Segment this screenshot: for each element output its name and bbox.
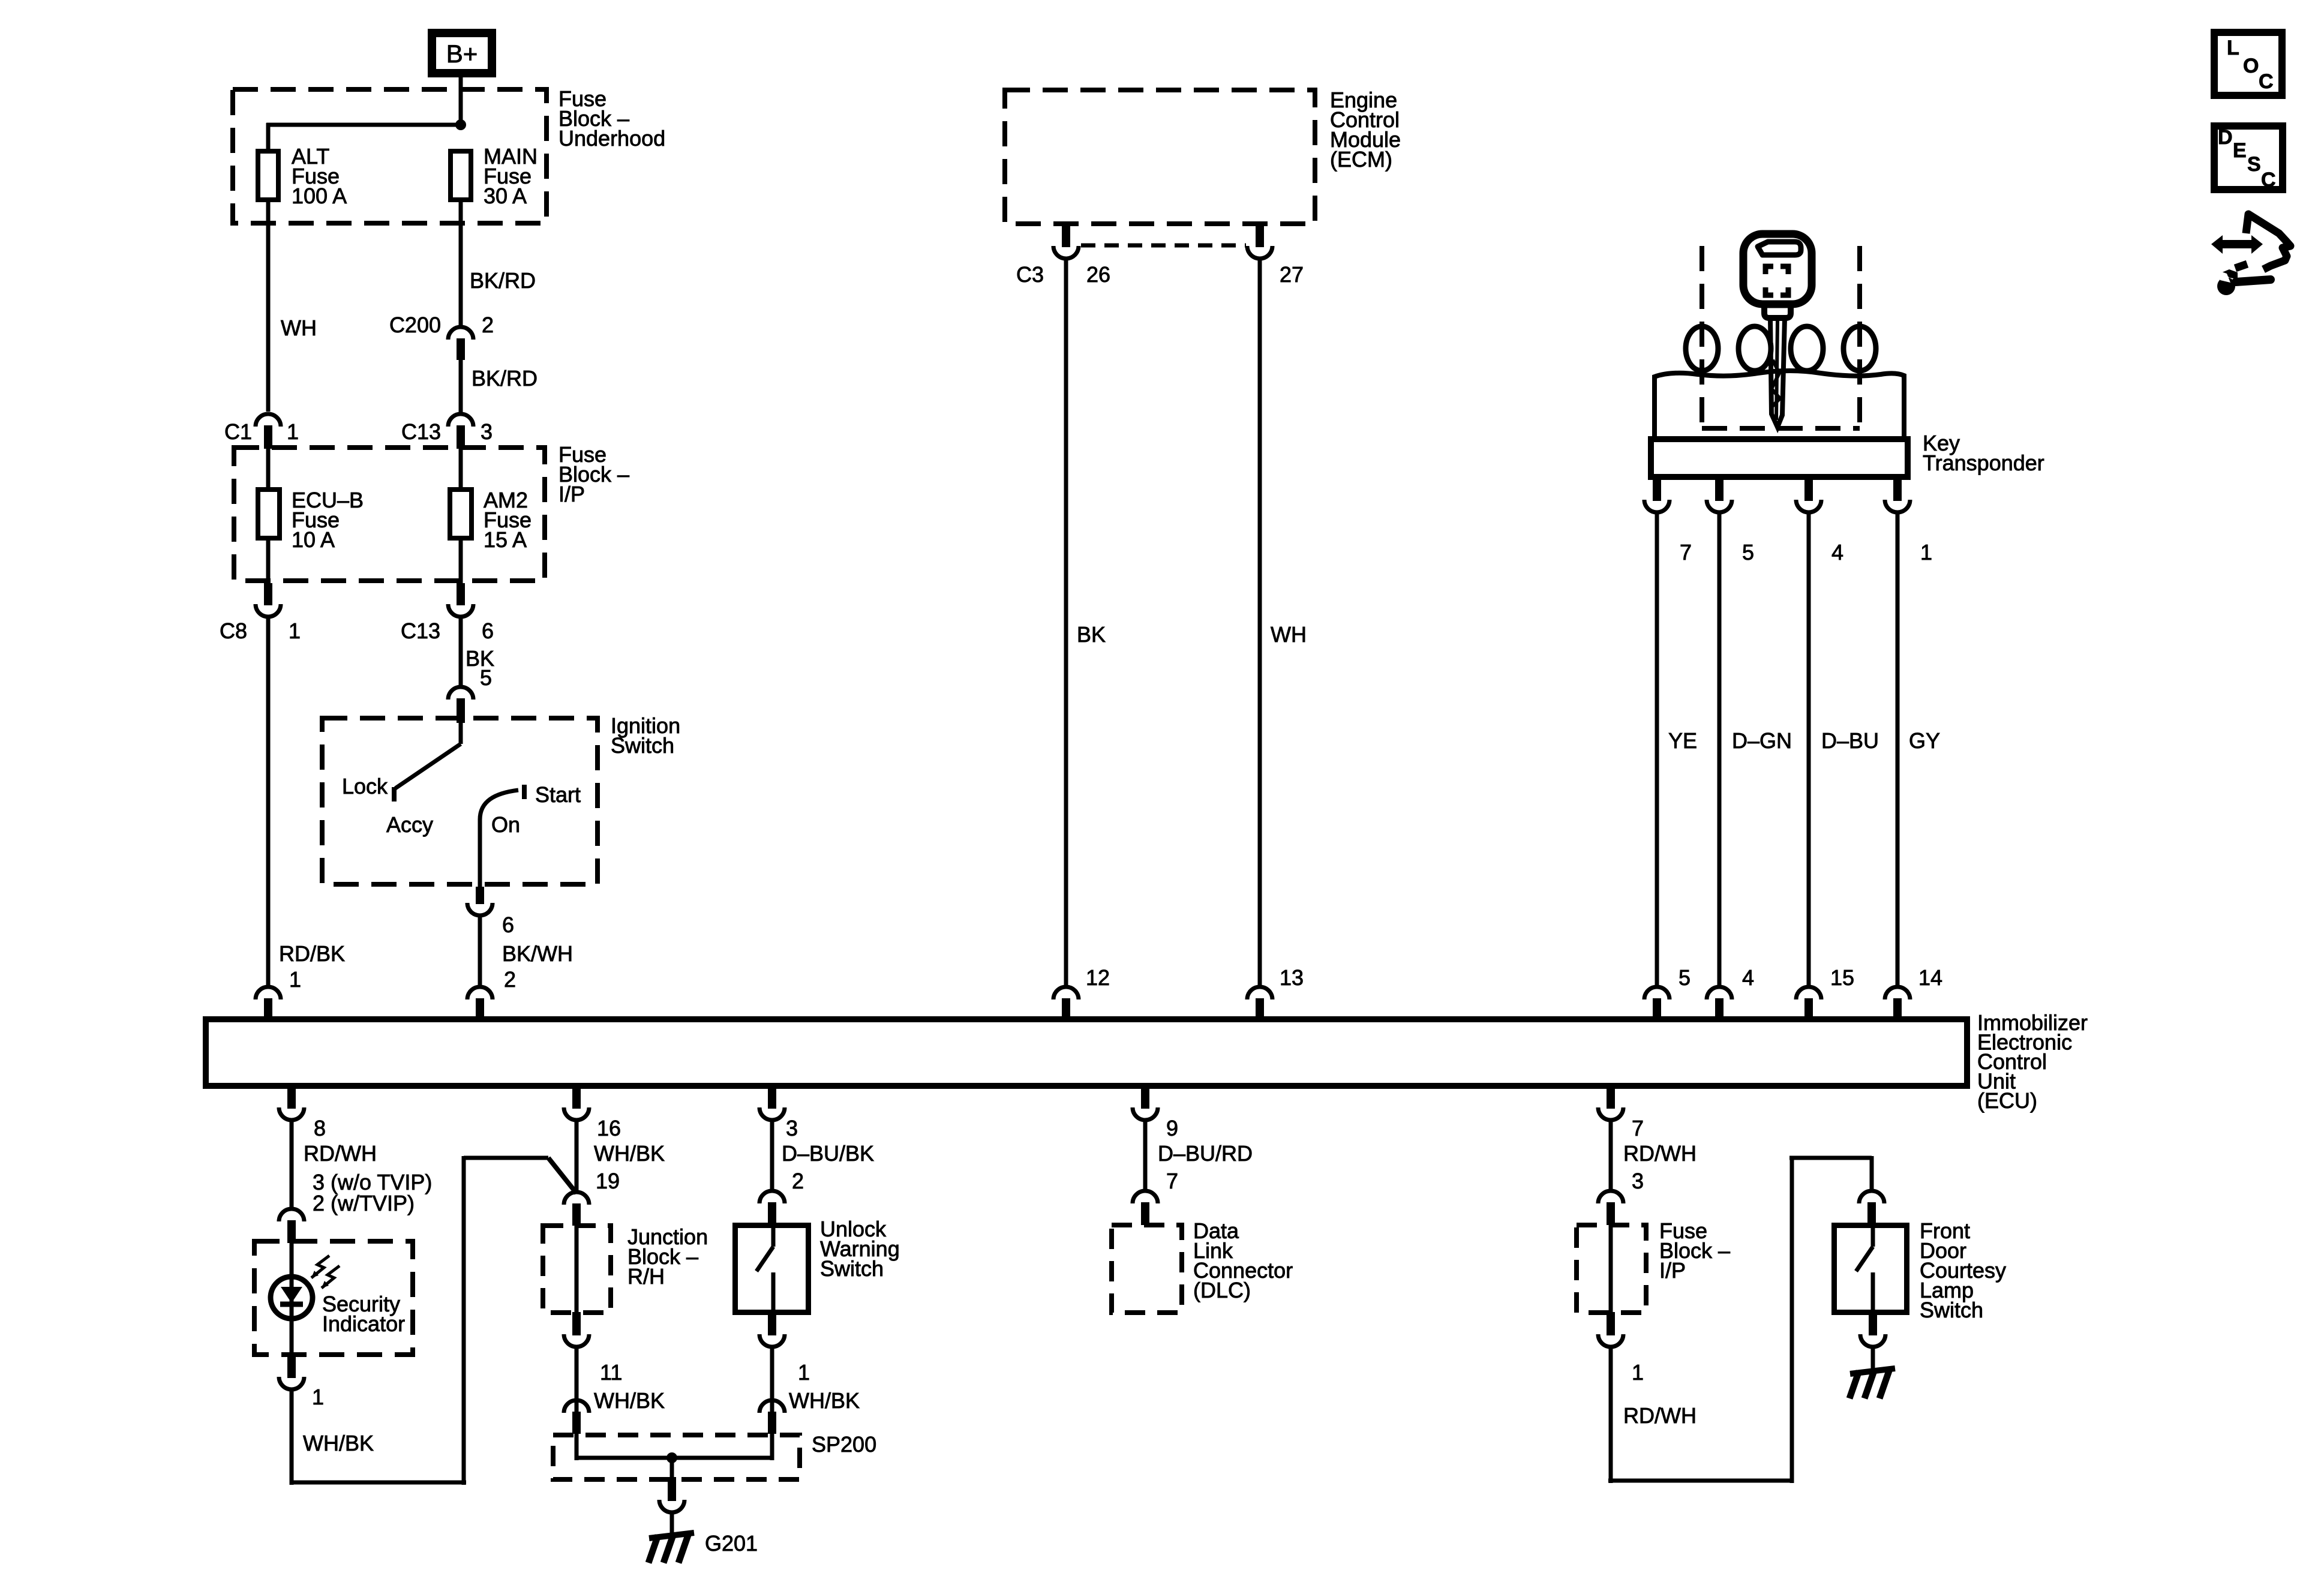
svg-text:GY: GY	[1909, 728, 1940, 753]
svg-text:1: 1	[289, 619, 301, 643]
wire BK ECM-26 to ECU pin 12	[1064, 259, 1068, 988]
svg-text:6: 6	[502, 912, 514, 937]
svg-text:19: 19	[596, 1169, 620, 1193]
wire WH ALT fuse to connector C1	[266, 202, 271, 412]
connector ECU top pin at x=2866	[1707, 987, 1732, 999]
wire D-BU/RD ECU pin 9 to DLC	[1143, 1120, 1148, 1192]
connector ECU top pin at x=3015	[1796, 987, 1821, 999]
connector ECU bottom pin at x=2685	[1607, 1086, 1615, 1109]
svg-text:26: 26	[1086, 262, 1110, 287]
connector C13 pin 6	[457, 583, 465, 605]
connector C200 pin 2	[448, 327, 473, 340]
wire inside fuse block I/P	[1609, 1225, 1613, 1312]
svg-text:14: 14	[1918, 965, 1942, 990]
svg-text:S: S	[2247, 153, 2261, 176]
node SP200 junction	[666, 1452, 677, 1463]
wire C13 to AM2 fuse	[459, 449, 463, 487]
svg-text:C: C	[2259, 70, 2274, 93]
courtesy lamp switch contacts	[1871, 1225, 1875, 1247]
wire SP200 left leg	[575, 1434, 579, 1460]
svg-text:12: 12	[1086, 965, 1110, 990]
connector SP200 right	[759, 1400, 785, 1413]
wire inside junction block	[575, 1226, 579, 1312]
coil ellipse 2	[1739, 326, 1771, 371]
LOC reference icon box	[2214, 32, 2282, 95]
connector ECU top pin at x=2762	[1644, 987, 1670, 999]
wire D-BU transponder-4 to ECU pin 15	[1807, 512, 1811, 988]
connector key transponder pin 5	[1715, 480, 1724, 501]
wire loop vertical	[462, 1156, 466, 1485]
svg-text:3: 3	[481, 419, 493, 444]
svg-text:7: 7	[1680, 540, 1692, 565]
ignition switch arm wire	[459, 723, 463, 744]
svg-text:100 A: 100 A	[292, 184, 347, 208]
unlock warning switch box	[735, 1226, 809, 1313]
wire ECU-B fuse to box edge	[266, 541, 271, 583]
connector fuse block I/P pin 3	[1598, 1191, 1623, 1203]
wire lamp loop down to switch	[1870, 1156, 1874, 1192]
svg-text:(ECU): (ECU)	[1977, 1088, 2037, 1113]
svg-text:7: 7	[1632, 1116, 1644, 1140]
wire GY transponder-1 to ECU pin 14	[1896, 512, 1900, 988]
fuse ALT 100A	[258, 151, 278, 200]
svg-text:BK/RD: BK/RD	[470, 268, 536, 293]
connector ground lead	[668, 1477, 676, 1501]
svg-text:11: 11	[600, 1360, 622, 1385]
svg-text:Accy: Accy	[386, 812, 433, 837]
svg-text:BK/WH: BK/WH	[502, 941, 573, 966]
svg-text:30 A: 30 A	[484, 184, 527, 208]
key transponder base bar	[1651, 439, 1908, 477]
svg-text:8: 8	[314, 1116, 326, 1140]
node junction below B+	[455, 119, 466, 130]
transponder coil housing with wavy top	[1655, 371, 1904, 436]
connector ECU bottom pin at x=1909	[1141, 1086, 1149, 1109]
wire SP200 bus	[577, 1456, 772, 1460]
connector ECU bottom pin at x=1287	[768, 1086, 776, 1109]
wire RD/BK C8 to ECU pin 1	[266, 617, 271, 988]
fuse MAIN 30A	[451, 151, 471, 200]
connector key transponder pin 4	[1804, 480, 1813, 501]
connector service icon wrench	[2236, 280, 2271, 282]
wire YE transponder-7 to ECU pin 5	[1655, 512, 1659, 988]
connector courtesy lamp switch lower	[1869, 1315, 1877, 1335]
key transponder dashed detection zone	[1700, 246, 1704, 430]
key head outline	[1743, 234, 1812, 304]
wire RD/WH to courtesy lamp switch loop	[1609, 1347, 1613, 1483]
svg-text:RD/BK: RD/BK	[279, 941, 345, 966]
svg-text:D–GN: D–GN	[1732, 728, 1792, 753]
svg-text:RD/WH: RD/WH	[304, 1141, 377, 1166]
svg-text:C13: C13	[401, 619, 440, 643]
svg-text:RD/WH: RD/WH	[1623, 1403, 1697, 1428]
connector ECU top pin at x=3163	[1885, 987, 1910, 999]
connector key transponder pin 7	[1653, 480, 1661, 501]
svg-text:WH/BK: WH/BK	[789, 1388, 860, 1413]
svg-text:(ECM): (ECM)	[1330, 147, 1392, 172]
ground door switch	[1850, 1368, 1895, 1374]
connector junction block pin 11	[572, 1312, 581, 1335]
connector ECU top pin at x=447	[256, 987, 281, 999]
fuse block - I/P dashed box	[234, 448, 545, 581]
svg-text:Switch: Switch	[1920, 1298, 1983, 1322]
front door courtesy lamp switch box	[1834, 1226, 1907, 1313]
svg-text:E: E	[2233, 139, 2247, 162]
svg-text:BK/RD: BK/RD	[472, 366, 538, 391]
svg-text:C13: C13	[401, 419, 441, 444]
svg-text:5: 5	[1679, 965, 1691, 990]
svg-text:C: C	[2261, 169, 2276, 191]
wire junction to ALT fuse column	[266, 123, 461, 127]
svg-text:6: 6	[482, 619, 494, 643]
svg-text:2: 2	[482, 313, 494, 337]
svg-text:WH: WH	[281, 316, 317, 340]
svg-text:RD/WH: RD/WH	[1623, 1141, 1697, 1166]
coil ellipse 3	[1791, 326, 1823, 371]
key transponder chip corner marks	[1765, 266, 1773, 274]
security indicator dashed box	[254, 1241, 413, 1355]
svg-text:1: 1	[798, 1360, 810, 1385]
connector courtesy lamp switch	[1859, 1191, 1884, 1203]
wire SP200 right leg	[770, 1434, 774, 1460]
connector ignition output pin 6	[476, 887, 484, 904]
engine control module dashed box	[1005, 90, 1315, 224]
svg-text:I/P: I/P	[1659, 1258, 1686, 1283]
svg-text:D–BU: D–BU	[1821, 728, 1879, 753]
connector key transponder pin 1	[1893, 480, 1902, 501]
svg-text:1: 1	[287, 419, 299, 444]
svg-text:4: 4	[1831, 540, 1843, 565]
connector ECU bottom pin at x=486	[287, 1086, 296, 1109]
svg-text:15 A: 15 A	[484, 527, 527, 552]
svg-text:Switch: Switch	[820, 1256, 884, 1281]
svg-text:15: 15	[1830, 965, 1854, 990]
wire C1 to ECU-B fuse	[266, 449, 271, 487]
connector SP200 left	[564, 1400, 589, 1413]
svg-text:7: 7	[1166, 1169, 1178, 1193]
wire loop top horizontal	[464, 1156, 548, 1160]
connector security indicator pin	[279, 1209, 304, 1221]
svg-text:C8: C8	[220, 619, 247, 643]
svg-text:WH/BK: WH/BK	[594, 1388, 665, 1413]
connector ECU bottom pin at x=961	[572, 1086, 581, 1109]
wire lamp loop bottom horizontal	[1608, 1479, 1792, 1483]
wire through LED	[290, 1243, 294, 1357]
svg-text:2: 2	[792, 1169, 804, 1193]
key grip slot	[1758, 242, 1801, 255]
svg-text:C3: C3	[1016, 262, 1044, 287]
ignition Lock contact	[392, 787, 397, 801]
fuse block - underhood dashed box	[233, 89, 547, 223]
wire to ground G201	[670, 1512, 674, 1533]
svg-text:1: 1	[289, 967, 301, 992]
ignition Start contact curve	[480, 790, 518, 819]
svg-text:1: 1	[312, 1385, 324, 1409]
wire BK C13-6 to ignition switch	[459, 617, 463, 688]
LED light arrows	[311, 1256, 329, 1278]
junction block R/H dashed box	[543, 1226, 611, 1313]
svg-text:O: O	[2243, 55, 2259, 77]
wire unlock switch to SP200	[770, 1347, 774, 1414]
svg-text:4: 4	[1742, 965, 1754, 990]
wire loop diagonal to junction block pin 19	[548, 1158, 577, 1193]
svg-text:WH: WH	[1271, 622, 1307, 647]
wire ignition On output	[478, 819, 482, 888]
svg-text:16: 16	[597, 1116, 621, 1140]
svg-text:Underhood: Underhood	[559, 126, 665, 151]
wire loop bottom horizontal	[292, 1481, 466, 1485]
wire BK/RD MAIN fuse to connector C200	[459, 202, 463, 328]
wire lamp loop vertical	[1790, 1156, 1794, 1483]
connector ECM C3 pin 27	[1256, 226, 1264, 247]
connector ECU top pin at x=1777	[1053, 987, 1079, 999]
ground G201 symbol	[649, 1533, 694, 1538]
ignition switch dashed box	[322, 718, 597, 884]
connector ECU top pin at x=2100	[1247, 987, 1272, 999]
splice SP200 dashed box	[553, 1435, 800, 1479]
svg-text:D–BU/BK: D–BU/BK	[782, 1141, 874, 1166]
wire B+ to junction	[459, 77, 463, 127]
svg-text:WH/BK: WH/BK	[594, 1141, 665, 1166]
connector service icon jaw outline	[2246, 214, 2290, 269]
svg-text:L: L	[2227, 37, 2239, 59]
svg-text:5: 5	[1742, 540, 1754, 565]
wire RD/WH ECU pin 7 to fuse block I/P	[1609, 1120, 1613, 1192]
wire RD/WH ECU pin 8 to security indicator	[290, 1120, 294, 1210]
svg-text:2 (w/TVIP): 2 (w/TVIP)	[313, 1191, 415, 1215]
svg-text:13: 13	[1280, 965, 1304, 990]
connector C8 pin 1	[264, 583, 272, 605]
connector C13 pin 3	[448, 414, 473, 427]
wire SP200 to ground connector	[670, 1458, 674, 1477]
coil ellipse 1	[1686, 326, 1718, 371]
fuse block I/P right dashed box	[1577, 1225, 1646, 1313]
connector C3 dashed link	[1081, 244, 1246, 248]
connector ECU top pin at x=800	[467, 987, 493, 999]
svg-text:9: 9	[1166, 1116, 1178, 1140]
svg-text:BK: BK	[1077, 622, 1106, 647]
svg-text:Switch: Switch	[611, 733, 674, 758]
connector unlock warning switch pin 1	[768, 1315, 776, 1335]
svg-text:Start: Start	[535, 782, 581, 807]
DESC reference icon box	[2214, 126, 2283, 190]
wire WH ECM-27 to ECU pin 13	[1258, 259, 1262, 988]
svg-text:3: 3	[786, 1116, 798, 1140]
key blade	[1770, 318, 1785, 427]
svg-text:WH/BK: WH/BK	[303, 1431, 374, 1455]
svg-text:R/H: R/H	[627, 1264, 665, 1289]
LED security indicator	[271, 1277, 313, 1319]
connector fuse block I/P pin 1	[1607, 1312, 1615, 1335]
svg-text:C200: C200	[389, 313, 441, 337]
svg-text:G201: G201	[705, 1531, 758, 1556]
wire BK/WH ignition to ECU pin 2	[478, 915, 482, 988]
connector ECM C3 pin 26	[1062, 226, 1070, 247]
wire junction block to SP200	[575, 1347, 579, 1414]
svg-text:3: 3	[1632, 1169, 1644, 1193]
svg-text:C1: C1	[224, 419, 252, 444]
connector unlock warning switch pin 2	[759, 1191, 785, 1203]
wire WH/BK ECU pin 16 to junction block	[575, 1120, 579, 1193]
coil ellipse 4	[1843, 326, 1876, 371]
svg-text:1: 1	[1632, 1360, 1644, 1385]
svg-text:Indicator: Indicator	[322, 1311, 405, 1336]
wire lamp loop top horizontal	[1789, 1156, 1872, 1160]
wire WH/BK security to splice loop	[290, 1389, 294, 1485]
wire D-BU/BK ECU pin 3 to unlock warning switch	[770, 1120, 774, 1192]
svg-text:SP200: SP200	[812, 1432, 876, 1457]
immobilizer ECU box	[206, 1019, 1967, 1086]
svg-text:Lock: Lock	[342, 774, 388, 798]
svg-text:(DLC): (DLC)	[1193, 1278, 1251, 1302]
wire BK/RD C200 to C13	[459, 360, 463, 413]
svg-text:YE: YE	[1668, 728, 1697, 753]
connector C1 pin 1	[256, 414, 281, 427]
svg-text:Transponder: Transponder	[1923, 451, 2044, 475]
svg-text:D–BU/RD: D–BU/RD	[1158, 1141, 1253, 1166]
svg-text:10 A: 10 A	[292, 527, 335, 552]
svg-text:B+: B+	[446, 40, 478, 68]
connector DLC pin 7	[1133, 1191, 1158, 1203]
connector security indicator pin 1	[287, 1357, 296, 1378]
fuse ECU-B 10A	[258, 490, 280, 538]
wire to door switch ground	[1871, 1347, 1875, 1369]
svg-text:1: 1	[1920, 540, 1932, 565]
battery feed B+ terminal	[428, 29, 496, 77]
svg-text:D: D	[2218, 126, 2233, 149]
unlock switch contacts	[771, 1225, 776, 1247]
svg-text:I/P: I/P	[559, 482, 585, 506]
connector ignition switch pin 5	[448, 687, 473, 700]
fuse AM2 15A	[450, 490, 472, 538]
wire AM2 fuse to box edge	[459, 541, 463, 583]
svg-text:27: 27	[1280, 262, 1304, 287]
data link connector dashed box	[1112, 1225, 1182, 1313]
wire D-GN transponder-5 to ECU pin 4	[1718, 512, 1722, 988]
key neck	[1764, 304, 1791, 318]
svg-text:On: On	[491, 812, 520, 837]
svg-text:5: 5	[480, 665, 492, 690]
connector junction block pin 19	[564, 1192, 589, 1205]
connector service icon arrow	[2221, 240, 2253, 248]
svg-text:2: 2	[504, 967, 516, 992]
